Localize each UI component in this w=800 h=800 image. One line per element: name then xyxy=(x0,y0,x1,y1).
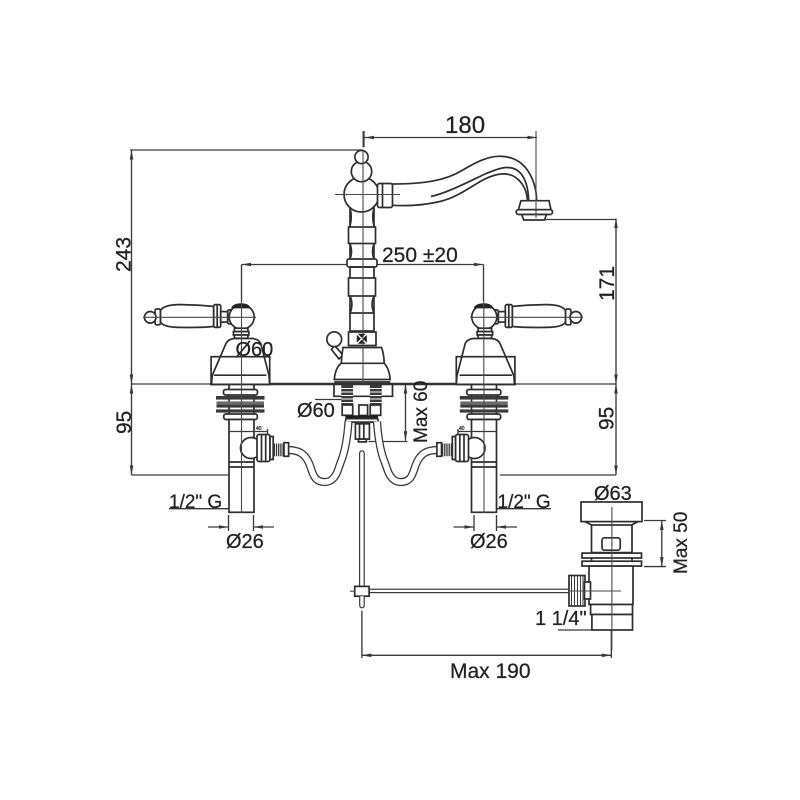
svg-text:171: 171 xyxy=(596,266,619,301)
svg-text:Max 190: Max 190 xyxy=(450,660,531,683)
svg-text:1/2" G: 1/2" G xyxy=(169,492,222,513)
svg-text:1 1/4": 1 1/4" xyxy=(535,608,587,630)
svg-text:Ø60: Ø60 xyxy=(297,400,335,422)
svg-text:40: 40 xyxy=(256,426,262,432)
svg-text:243: 243 xyxy=(113,237,136,272)
svg-text:40: 40 xyxy=(459,426,465,432)
svg-text:Ø63: Ø63 xyxy=(594,483,632,505)
svg-text:Ø60: Ø60 xyxy=(236,339,274,361)
svg-text:95: 95 xyxy=(596,407,619,430)
svg-text:180: 180 xyxy=(445,112,485,139)
svg-text:Max 60: Max 60 xyxy=(411,381,432,443)
svg-text:Max 50: Max 50 xyxy=(671,512,692,574)
svg-text:250 ±20: 250 ±20 xyxy=(382,244,458,267)
svg-text:Ø26: Ø26 xyxy=(470,531,508,553)
svg-text:1/2" G: 1/2" G xyxy=(498,492,551,513)
svg-text:95: 95 xyxy=(113,411,136,434)
svg-text:Ø26: Ø26 xyxy=(226,531,264,553)
